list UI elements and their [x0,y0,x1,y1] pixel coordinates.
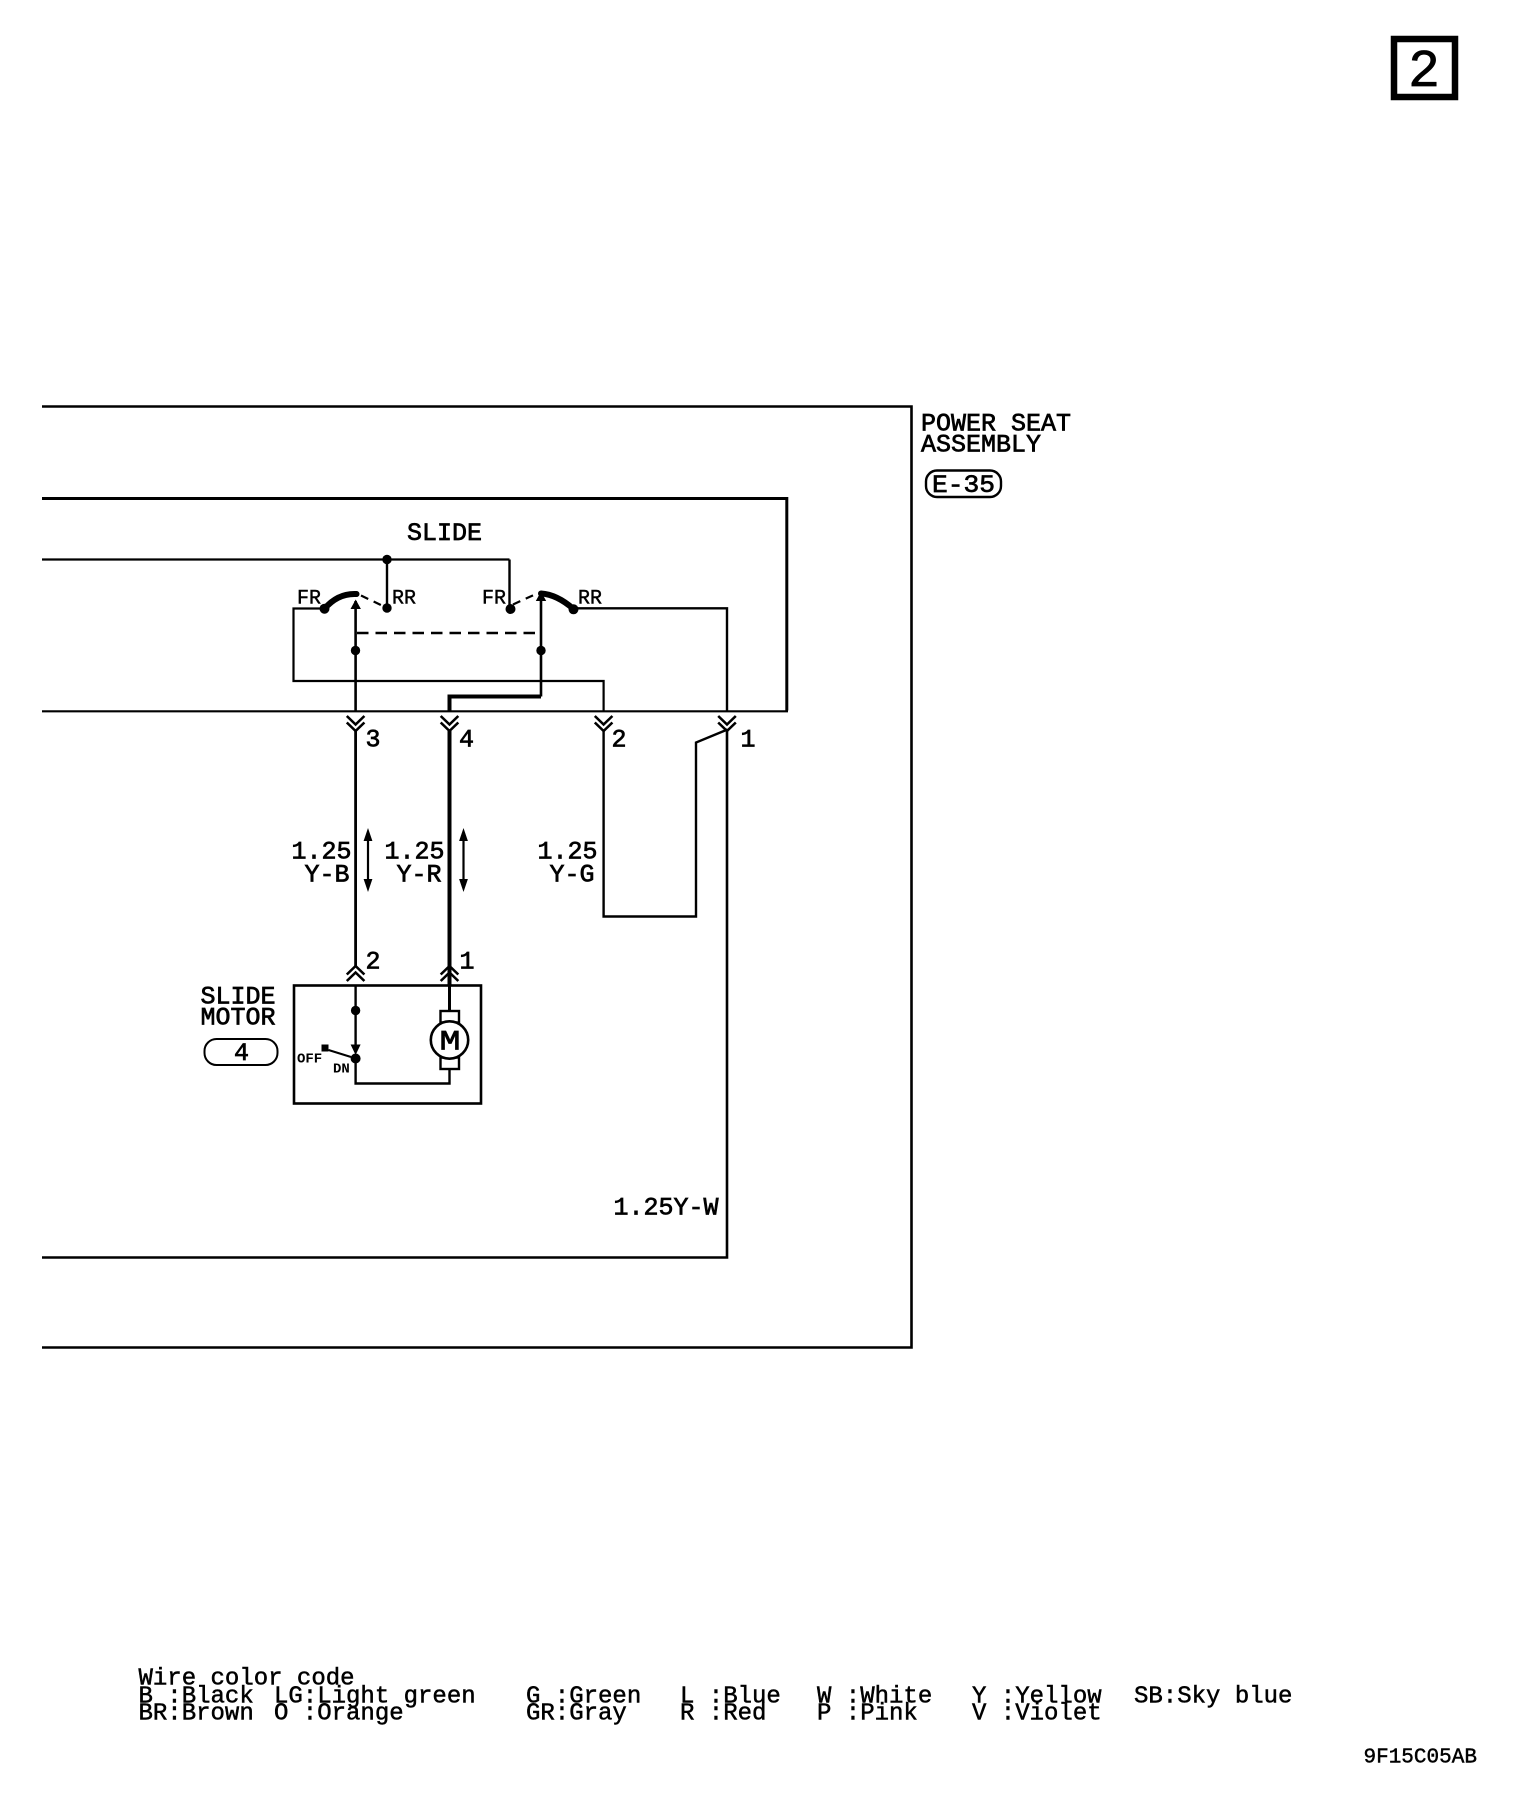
junction dot [351,646,360,655]
connector pin 3 chevron [347,716,365,731]
wire feed [42,558,510,560]
svg-text:SB:Sky blue: SB:Sky blue [1134,1684,1292,1711]
svg-text:V :Violet: V :Violet [972,1701,1102,1728]
svg-text:M: M [440,1028,461,1059]
switch 2 dashed link [513,594,536,605]
legend wire color code [139,1666,1293,1728]
svg-text:Y-R: Y-R [397,861,442,890]
svg-text:GR:Gray: GR:Gray [526,1701,627,1728]
limit switch arm [329,1050,352,1057]
svg-text:R :Red: R :Red [680,1701,766,1728]
svg-text:Y-B: Y-B [305,861,350,890]
svg-text:O :Orange: O :Orange [274,1701,404,1728]
svg-text:FR: FR [482,588,506,611]
svg-text:P :Pink: P :Pink [817,1701,918,1728]
wire RR2 to pin 1 [574,608,728,711]
connector E-35 [926,471,1001,501]
motor pin 2 chevron [347,966,365,981]
label POWER SEAT ASSEMBLY [921,410,1071,460]
connector 4 stadium [205,1039,278,1068]
wire Y-G pin2 loop to pin1 wire [604,730,728,917]
size arrow 2 [459,828,468,892]
switch 1 arm [325,594,357,609]
limit switch OFF contact [322,1045,329,1052]
inner switch box [42,499,787,711]
svg-text:3: 3 [366,726,381,755]
svg-text:RR: RR [392,588,416,611]
svg-text:RR: RR [578,588,602,611]
connector pin 4 chevron [441,716,459,731]
motor M1 [431,985,468,1069]
svg-text:DN: DN [333,1062,350,1078]
slide motor box [294,986,481,1104]
svg-text:ASSEMBLY: ASSEMBLY [921,431,1041,460]
label 1.25 Y-R [385,838,445,890]
page number box 2 [1394,39,1455,102]
svg-text:Y-G: Y-G [550,861,595,890]
svg-text:9F15C05AB: 9F15C05AB [1364,1747,1477,1770]
switch 2 arm arrowhead [536,592,546,602]
wire to FR contact of switch 2 [508,560,510,607]
motor pin 1 chevron [441,966,459,981]
wire Y-B pin3 to motor pin2 [354,731,357,966]
switch 1 dashed link [361,596,384,607]
connector pin 1 chevron [718,716,736,731]
label SLIDE MOTOR [201,983,276,1033]
junction dot [536,646,545,655]
switch 1 pole wire [354,601,357,711]
size arrow 1 [364,828,373,892]
label 1.25 Y-B [292,838,352,890]
svg-text:SLIDE: SLIDE [407,519,482,548]
svg-text:1.25Y-W: 1.25Y-W [614,1194,719,1223]
switch 1 arm arrowhead [351,600,361,610]
wire DN contact to motor [356,1059,450,1084]
svg-text:1: 1 [741,726,756,755]
switch 2 RR contact [569,604,579,614]
svg-text:2: 2 [366,948,381,977]
switch 2 arm [541,594,574,610]
svg-text:OFF: OFF [297,1052,322,1068]
svg-text:E-35: E-35 [932,471,995,500]
limit switch DN contact [351,1054,361,1064]
motor internal pole wire [354,985,356,1051]
switch 2 FR contact [506,604,516,614]
wire to RR contact [386,560,388,606]
limit switch DN arrowhead [351,1045,361,1056]
mechanical dashed linkage [357,632,541,634]
svg-text:4: 4 [459,726,474,755]
label 1.25 Y-G [538,838,598,890]
svg-text:1: 1 [460,948,475,977]
connector boundary line [42,710,788,712]
svg-text:2: 2 [1408,42,1440,102]
switch 2 pole wire [540,600,543,697]
switch 1 RR contact [382,603,391,612]
outer assembly box [42,407,912,1348]
svg-text:2: 2 [612,726,627,755]
switch 1 FR contact [320,604,330,614]
svg-text:MOTOR: MOTOR [201,1004,276,1033]
wire FR1 to frame [294,609,604,712]
connector pin 2 chevron [595,716,613,731]
junction dot [351,1006,360,1015]
svg-text:4: 4 [234,1039,249,1068]
wire Y-W pin1 down and left [42,731,727,1258]
wire pole 2 to pin 4 [450,697,542,712]
svg-text:FR: FR [297,588,321,611]
node junction [382,555,391,564]
wire Y-R pin4 to motor pin1 [448,731,452,985]
svg-text:BR:Brown: BR:Brown [139,1701,254,1728]
